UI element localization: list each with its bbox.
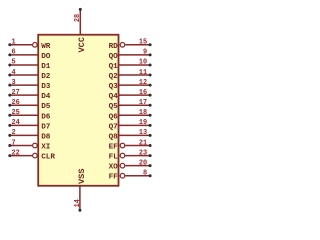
svg-text:FL: FL <box>109 154 119 162</box>
svg-text:19: 19 <box>139 119 147 127</box>
svg-text:2: 2 <box>12 129 16 137</box>
svg-text:13: 13 <box>139 129 147 137</box>
svg-text:Q2: Q2 <box>109 73 119 81</box>
svg-text:D6: D6 <box>41 113 51 121</box>
svg-text:WR: WR <box>41 43 51 51</box>
svg-text:23: 23 <box>139 149 147 157</box>
pin 3 D3 (left) <box>8 79 51 91</box>
svg-text:Q3: Q3 <box>109 83 119 91</box>
svg-text:26: 26 <box>12 99 20 107</box>
pin 24 D7 (left) <box>8 119 51 131</box>
svg-text:D1: D1 <box>41 63 51 71</box>
svg-text:D5: D5 <box>41 103 51 111</box>
svg-text:1: 1 <box>12 39 16 47</box>
pin 9 Q0 (right) <box>109 49 152 61</box>
svg-text:XO: XO <box>109 164 119 172</box>
svg-text:4: 4 <box>12 69 16 77</box>
pin 10 Q1 (right) <box>109 59 152 71</box>
svg-text:17: 17 <box>139 99 147 107</box>
svg-text:FF: FF <box>109 174 119 182</box>
svg-text:VSS: VSS <box>77 169 87 184</box>
svg-text:XI: XI <box>41 144 51 152</box>
svg-text:28: 28 <box>74 14 82 22</box>
svg-text:DO: DO <box>41 53 51 61</box>
pin 12 Q3 (right) <box>109 79 152 91</box>
svg-text:21: 21 <box>139 139 147 147</box>
pin 14 VSS (bottom) <box>74 169 87 212</box>
svg-text:EF: EF <box>109 144 119 152</box>
svg-text:QO: QO <box>109 53 119 61</box>
svg-text:6: 6 <box>12 49 16 57</box>
svg-text:22: 22 <box>12 149 20 157</box>
svg-text:5: 5 <box>12 59 16 67</box>
svg-text:D7: D7 <box>41 123 51 131</box>
svg-text:D4: D4 <box>41 93 51 101</box>
pin 26 D5 (left) <box>8 99 51 111</box>
svg-text:Q1: Q1 <box>109 63 119 71</box>
pin 16 Q4 (right) <box>109 89 152 101</box>
svg-text:7: 7 <box>12 139 16 147</box>
svg-text:Q7: Q7 <box>109 123 119 131</box>
svg-text:11: 11 <box>139 69 147 77</box>
svg-text:CLR: CLR <box>41 154 55 162</box>
svg-text:3: 3 <box>12 79 16 87</box>
svg-text:Q6: Q6 <box>109 113 119 121</box>
pin 28 VCC (top) <box>74 8 87 53</box>
pin 11 Q2 (right) <box>109 69 152 81</box>
svg-text:D8: D8 <box>41 133 51 141</box>
svg-text:20: 20 <box>139 159 147 167</box>
pin 1 WR (left) <box>8 39 51 51</box>
svg-text:9: 9 <box>143 49 147 57</box>
svg-text:RD: RD <box>109 43 119 51</box>
pin 22 CLR (left) <box>8 149 55 161</box>
pin 25 D6 (left) <box>8 109 51 121</box>
svg-text:25: 25 <box>12 109 20 117</box>
svg-text:18: 18 <box>139 109 147 117</box>
svg-text:D2: D2 <box>41 73 51 81</box>
pin 21 EF (right) <box>109 139 152 151</box>
svg-text:16: 16 <box>139 89 147 97</box>
pin 27 D4 (left) <box>8 89 51 101</box>
pin 20 X0 (right) <box>109 159 152 171</box>
pin 6 D0 (left) <box>8 49 51 61</box>
svg-text:10: 10 <box>139 59 147 67</box>
svg-text:Q4: Q4 <box>109 93 119 101</box>
pin 7 XI (left) <box>8 139 51 151</box>
svg-text:Q5: Q5 <box>109 103 119 111</box>
svg-text:12: 12 <box>139 79 147 87</box>
svg-text:Q8: Q8 <box>109 133 119 141</box>
svg-text:D3: D3 <box>41 83 51 91</box>
svg-text:24: 24 <box>12 119 20 127</box>
pin 8 FF (right) <box>109 170 152 182</box>
IC body U1 <box>38 35 118 186</box>
pin 18 Q6 (right) <box>109 109 152 121</box>
pin 4 D2 (left) <box>8 69 51 81</box>
pin 17 Q5 (right) <box>109 99 152 111</box>
svg-text:14: 14 <box>74 199 82 207</box>
pin 13 Q8 (right) <box>109 129 152 141</box>
pin 15 RD (right) <box>109 39 152 51</box>
svg-text:15: 15 <box>139 39 147 47</box>
pin 19 Q7 (right) <box>109 119 152 131</box>
svg-text:8: 8 <box>143 170 147 178</box>
svg-text:27: 27 <box>12 89 20 97</box>
pin 5 D1 (left) <box>8 59 51 71</box>
pin 2 D8 (left) <box>8 129 51 141</box>
svg-text:VCC: VCC <box>77 37 87 52</box>
pin 23 FL (right) <box>109 149 152 161</box>
